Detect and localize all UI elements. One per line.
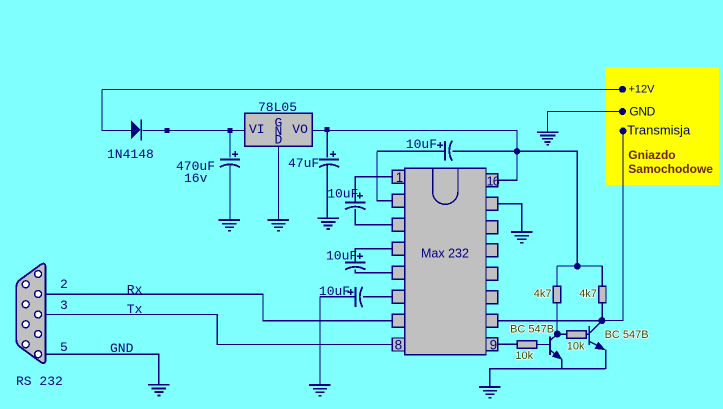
- capacitor C6 47uF polarized: [319, 151, 339, 167]
- diode D1 1N4148: [131, 120, 142, 141]
- svg-text:Transmisja: Transmisja: [627, 122, 691, 137]
- svg-text:BC 547B: BC 547B: [605, 329, 649, 341]
- wire left drop to diode anode: [102, 90, 131, 131]
- svg-text:2: 2: [60, 277, 68, 292]
- junction node 4k7 rail: [574, 263, 581, 270]
- capacitor C3 10uF polarized horizontal: [348, 287, 363, 307]
- wire Q2 emitter drop: [605, 350, 607, 369]
- svg-text:4k7: 4k7: [534, 288, 552, 300]
- wire C3 left to ground drop: [320, 296, 354, 298]
- svg-text:1N4148: 1N4148: [107, 147, 154, 162]
- ground G4 GND terminal: [537, 132, 559, 145]
- svg-text:Max 232: Max 232: [421, 247, 469, 261]
- wire C2 bracket pin5: [355, 269, 392, 272]
- wire Q1 emitter drop: [561, 359, 563, 369]
- junction node Q1 collector: [554, 331, 561, 338]
- svg-text:10k: 10k: [515, 350, 533, 362]
- wire C1 bracket pin3: [355, 209, 392, 225]
- wire C4 cap to pin2 drop: [377, 151, 392, 201]
- wire +12V top rail: [102, 89, 623, 91]
- svg-text:BC 547B: BC 547B: [510, 324, 554, 336]
- ground G2 78L05: [268, 220, 290, 231]
- svg-text:8: 8: [395, 338, 403, 353]
- transistor Q2 BC547B: [589, 321, 603, 349]
- junction node Q2 collector: [598, 317, 605, 324]
- wire 4k7 rail split: [557, 266, 602, 286]
- wire pin9 to 10k R3: [498, 343, 518, 345]
- svg-text:10uF: 10uF: [327, 187, 358, 202]
- IC U1 notch: [433, 169, 458, 205]
- svg-text:10k: 10k: [567, 340, 585, 352]
- ground G3 47uF: [317, 218, 339, 229]
- svg-text:10uF: 10uF: [319, 284, 350, 299]
- wire C1 bracket pin1: [355, 177, 392, 202]
- wire node to 10k R4: [557, 333, 567, 335]
- svg-text:Gniazdo: Gniazdo: [628, 148, 675, 162]
- wire 4k7 right bottom: [601, 303, 603, 321]
- wire 10k R4 to Q2 base: [586, 333, 589, 335]
- svg-text:GND: GND: [110, 341, 134, 356]
- svg-text:9: 9: [490, 337, 498, 352]
- svg-text:16v: 16v: [184, 171, 208, 186]
- node square J2: [228, 128, 233, 133]
- wire C3 right to pin6: [363, 296, 392, 298]
- svg-text:4k7: 4k7: [579, 288, 597, 300]
- svg-text:D: D: [275, 132, 283, 147]
- wire 47uF to ground: [326, 165, 328, 218]
- wire GND terminal to ground symbol: [548, 112, 620, 132]
- svg-text:VI: VI: [249, 122, 265, 137]
- capacitor C5 470uF polarized: [220, 151, 240, 167]
- capacitor C1 10uF polarized: [345, 193, 365, 210]
- wire C4 left segment: [377, 150, 444, 152]
- svg-text:Tx: Tx: [127, 302, 143, 317]
- resistor R3 10k: [517, 341, 536, 349]
- wire diode cathode to 78L05 VI: [143, 130, 245, 132]
- wire 470uF branch top: [229, 131, 231, 158]
- wire Tx pin3 DB9 to pin8: [42, 315, 393, 345]
- terminal dot GND: [619, 108, 626, 115]
- wire 78L05 GND pin: [278, 147, 280, 220]
- wire node V+ to 4k7 rail: [517, 151, 577, 265]
- ground G7 C3: [309, 385, 331, 396]
- resistor R4 10k: [567, 331, 586, 339]
- wire pin10 to collector node: [498, 320, 602, 322]
- wire emitter bottom rail to ground: [490, 369, 606, 387]
- svg-text:10uF: 10uF: [406, 137, 437, 152]
- resistor R1 4k7: [553, 286, 560, 303]
- wire 47uF branch top: [326, 131, 328, 158]
- wire C3 ground drop: [319, 297, 321, 385]
- svg-text:+12V: +12V: [629, 84, 656, 96]
- gniazdo samochodowe yellow panel: [606, 67, 719, 185]
- connector X1 DB9 body: [16, 264, 45, 364]
- svg-text:GND: GND: [629, 104, 655, 118]
- junction node V+: [514, 148, 520, 154]
- regulator U2 78L05: [245, 113, 313, 147]
- capacitor C2 10uF polarized: [345, 253, 365, 270]
- resistor R2 4k7: [599, 286, 606, 303]
- wire DB9 pin5 GND: [42, 354, 159, 384]
- terminal dot +12V: [619, 86, 626, 93]
- node square J3: [325, 127, 330, 132]
- ground G1 470uF: [219, 220, 241, 231]
- svg-text:16: 16: [487, 174, 500, 188]
- wire 470uF to ground: [229, 165, 231, 220]
- svg-text:VO: VO: [292, 122, 308, 137]
- wire 78L05 VO to corner x517: [313, 131, 518, 181]
- wire 10k R3 to Q1 base: [537, 344, 549, 346]
- terminal dot Transmisja: [620, 127, 627, 134]
- svg-text:1: 1: [396, 170, 404, 185]
- svg-text:78L05: 78L05: [258, 100, 297, 115]
- IC U1 right pins 16-9: [486, 174, 498, 351]
- svg-text:3: 3: [60, 298, 68, 313]
- svg-text:47uF: 47uF: [288, 156, 319, 171]
- wire Transmisja drop: [602, 134, 623, 321]
- svg-text:RS 232: RS 232: [16, 374, 63, 389]
- ground G5 pin15: [511, 232, 533, 243]
- svg-text:Samochodowe: Samochodowe: [628, 162, 713, 176]
- IC U1 left pins 1-8: [392, 170, 405, 351]
- connector X1 holes: [22, 271, 41, 358]
- capacitor C4 10uF polarized horizontal: [437, 141, 452, 161]
- wire pin15 to ground: [498, 204, 522, 232]
- transistor Q1 BC547B: [550, 334, 561, 358]
- wire C4 right segment to node V+: [453, 150, 518, 152]
- node square J1: [165, 128, 170, 133]
- wire C2 bracket pin4: [355, 249, 392, 262]
- ground G8 emitters: [479, 387, 501, 398]
- IC U1 Max232 body: [405, 168, 486, 355]
- wire 4k7 left bottom: [556, 303, 558, 334]
- svg-text:Rx: Rx: [127, 282, 143, 297]
- wire Rx pin2 DB9 to pin7: [42, 294, 393, 321]
- svg-text:5: 5: [60, 340, 68, 355]
- svg-text:10uF: 10uF: [326, 249, 357, 264]
- ground G6 DB9 GND: [148, 385, 170, 396]
